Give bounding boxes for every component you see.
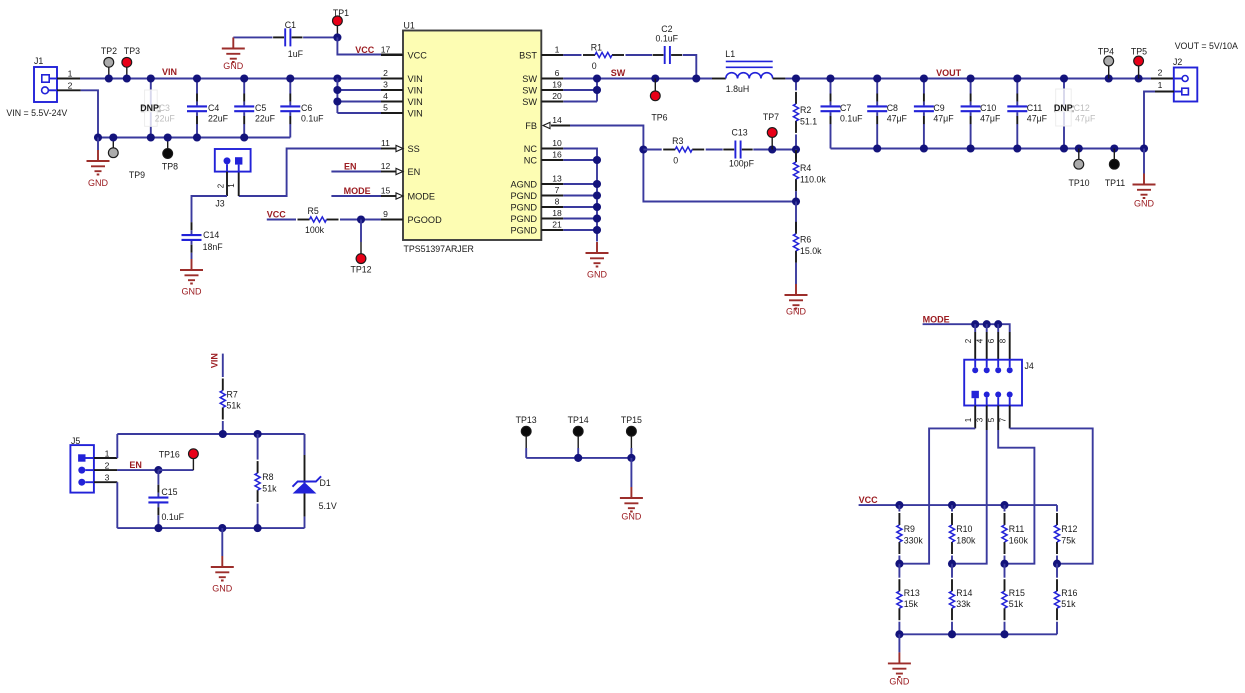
svg-text:GND: GND <box>621 512 642 522</box>
svg-text:7: 7 <box>999 417 1008 422</box>
svg-text:SW: SW <box>522 97 537 107</box>
svg-text:1: 1 <box>1158 80 1163 90</box>
wire J4 pin7 route <box>1009 406 1011 429</box>
svg-text:TP16: TP16 <box>159 449 180 459</box>
wire J5 pin3 to bottom rail <box>94 481 117 483</box>
capacitor C10 <box>970 79 972 94</box>
connector J4 <box>964 360 1022 406</box>
junction dots input bottom rail <box>94 133 102 141</box>
svg-text:3: 3 <box>383 80 388 90</box>
svg-text:C4: C4 <box>208 103 219 113</box>
wire SW pins bus <box>563 89 597 91</box>
capacitor C6 <box>289 79 291 94</box>
capacitor C2 <box>665 46 670 64</box>
svg-text:6: 6 <box>555 68 560 78</box>
svg-text:VIN: VIN <box>408 97 423 107</box>
svg-text:15: 15 <box>381 186 391 196</box>
svg-text:TP15: TP15 <box>621 415 642 425</box>
svg-text:EN: EN <box>344 161 357 171</box>
ground C14 <box>191 253 193 259</box>
test point TP2 <box>108 67 110 78</box>
junction dots output bottom rail <box>873 144 881 152</box>
ground C1 <box>232 36 234 38</box>
U1 pin 3 VIN <box>381 89 403 91</box>
svg-text:0.1uF: 0.1uF <box>656 34 679 44</box>
svg-text:100k: 100k <box>305 225 325 235</box>
svg-text:GND: GND <box>1134 199 1155 209</box>
svg-text:33k: 33k <box>956 599 971 609</box>
U1 pin 13 AGND <box>541 183 563 185</box>
svg-text:R11: R11 <box>1009 524 1025 534</box>
svg-text:180k: 180k <box>956 536 976 546</box>
U1 pin 9 PGOOD <box>381 219 403 221</box>
svg-text:1uF: 1uF <box>288 49 304 59</box>
svg-text:5: 5 <box>383 103 388 113</box>
svg-text:J1: J1 <box>34 56 43 66</box>
svg-text:9: 9 <box>383 209 388 219</box>
svg-text:51k: 51k <box>262 484 277 494</box>
svg-text:13: 13 <box>552 174 562 184</box>
U1 pin 17 VCC <box>381 54 403 56</box>
wire MODE net <box>923 324 1010 332</box>
svg-text:VIN: VIN <box>408 109 423 119</box>
wire FB net <box>570 126 796 202</box>
test point TP12 <box>360 220 362 243</box>
svg-text:8: 8 <box>555 197 560 207</box>
svg-text:0.1uF: 0.1uF <box>301 114 324 124</box>
svg-text:DNP: DNP <box>140 103 159 113</box>
node PGOOD junction <box>357 215 365 223</box>
U1 pin 16 NC <box>541 159 563 161</box>
svg-text:4: 4 <box>976 338 985 343</box>
connector J1 <box>34 67 57 102</box>
node EN junction <box>154 466 162 474</box>
svg-text:MODE: MODE <box>408 192 436 202</box>
svg-text:TP1: TP1 <box>333 8 349 18</box>
svg-text:1: 1 <box>68 69 73 79</box>
capacitor C3 (DNP) <box>150 79 152 138</box>
wire output bottom rail <box>831 148 1145 150</box>
resistor R14 <box>951 564 953 578</box>
svg-text:10: 10 <box>552 138 562 148</box>
svg-text:TP12: TP12 <box>350 264 371 274</box>
resistor R11 <box>1004 505 1006 511</box>
svg-text:15k: 15k <box>904 599 919 609</box>
ground U1 PGND <box>586 242 609 267</box>
wire D1 bottom lead <box>304 517 306 529</box>
wire VOUT rail <box>796 78 1151 80</box>
svg-text:22uF: 22uF <box>155 114 176 124</box>
svg-text:8: 8 <box>999 338 1008 343</box>
wire R3 line <box>643 149 661 151</box>
resistor R5 <box>298 219 310 221</box>
svg-text:PGND: PGND <box>510 226 537 236</box>
svg-text:VIN: VIN <box>408 86 423 96</box>
junction dots VOUT rail <box>826 74 834 82</box>
svg-text:R4: R4 <box>800 163 811 173</box>
svg-text:C5: C5 <box>255 103 266 113</box>
wire BST <box>563 54 581 56</box>
wire TP13-15 rail <box>526 457 631 459</box>
svg-text:R3: R3 <box>672 136 683 146</box>
svg-text:VIN: VIN <box>408 74 423 84</box>
svg-text:51k: 51k <box>1009 599 1024 609</box>
svg-text:TP6: TP6 <box>651 113 667 123</box>
svg-text:51k: 51k <box>227 401 242 411</box>
svg-text:47μF: 47μF <box>887 114 908 124</box>
J4 pin 2 <box>972 367 978 373</box>
svg-text:MODE: MODE <box>923 314 950 324</box>
test point TP16 <box>158 469 193 471</box>
svg-text:7: 7 <box>555 185 560 195</box>
test point TP10 <box>1078 149 1080 160</box>
svg-text:PGOOD: PGOOD <box>408 215 443 225</box>
svg-text:VCC: VCC <box>267 209 287 219</box>
svg-text:21: 21 <box>552 220 562 230</box>
wire J1 pin1 to VIN rail <box>57 78 80 80</box>
svg-text:BST: BST <box>519 51 537 61</box>
svg-text:0.1uF: 0.1uF <box>840 114 863 124</box>
svg-text:C9: C9 <box>933 103 944 113</box>
ground EN circuit <box>221 528 223 556</box>
svg-text:75k: 75k <box>1061 536 1076 546</box>
svg-text:3: 3 <box>976 417 985 422</box>
wire EN bottom rail <box>117 527 304 529</box>
svg-text:GND: GND <box>889 677 910 687</box>
svg-text:R5: R5 <box>308 206 319 216</box>
U1 pin 19 SW <box>541 89 563 91</box>
svg-text:0: 0 <box>592 61 597 71</box>
resistor R13 <box>898 564 900 578</box>
svg-text:TP3: TP3 <box>124 46 140 56</box>
test point TP7 <box>768 145 776 153</box>
wire J3 pin2 to C14 <box>226 172 228 196</box>
capacitor C4 <box>196 79 198 94</box>
svg-text:11: 11 <box>381 138 390 148</box>
svg-text:VIN = 5.5V-24V: VIN = 5.5V-24V <box>6 108 67 118</box>
J4 pin 3 <box>984 392 990 398</box>
svg-text:R6: R6 <box>800 235 811 245</box>
capacitor C13 <box>735 141 740 159</box>
test point TP8 <box>167 138 169 149</box>
U1 pin 14 FB <box>543 122 550 128</box>
svg-text:47μF: 47μF <box>1075 114 1096 124</box>
resistor R9 <box>898 505 900 511</box>
test point TP4 <box>1108 66 1110 79</box>
svg-text:100pF: 100pF <box>729 159 755 169</box>
svg-text:6: 6 <box>987 338 996 343</box>
svg-text:2: 2 <box>105 461 110 471</box>
svg-text:U1: U1 <box>404 21 415 31</box>
svg-text:GND: GND <box>212 584 233 594</box>
svg-text:12: 12 <box>381 161 391 171</box>
wire VCC rail <box>859 504 1057 506</box>
capacitor C1 <box>233 36 272 38</box>
svg-text:R14: R14 <box>956 588 972 598</box>
test point TP6 <box>651 74 659 82</box>
svg-text:1: 1 <box>105 449 110 459</box>
svg-text:47μF: 47μF <box>980 114 1001 124</box>
svg-text:EN: EN <box>129 460 142 470</box>
svg-text:5.1V: 5.1V <box>319 501 337 511</box>
svg-text:18: 18 <box>552 208 562 218</box>
wire SS net <box>239 149 381 197</box>
node FB-R3 junction <box>639 145 647 153</box>
svg-text:C10: C10 <box>980 103 996 113</box>
U1 pin 8 PGND <box>541 206 563 208</box>
svg-text:J4: J4 <box>1025 361 1034 371</box>
svg-text:330k: 330k <box>904 536 924 546</box>
wire J1 pin2 to GND rail <box>57 89 81 91</box>
wire J4 pin5 route <box>997 406 999 431</box>
svg-text:TP13: TP13 <box>516 415 537 425</box>
IC U1 TPS51397ARJER body <box>403 31 541 241</box>
svg-text:GND: GND <box>88 178 109 188</box>
svg-text:GND: GND <box>182 287 203 297</box>
wire VIN to R7 <box>222 354 224 377</box>
node R4-R6 junction <box>792 197 800 205</box>
U1 pin 20 SW <box>541 101 563 103</box>
svg-text:TP11: TP11 <box>1105 178 1125 188</box>
svg-text:4: 4 <box>383 91 388 101</box>
svg-text:L1: L1 <box>725 49 735 59</box>
capacitor C15 <box>157 470 159 485</box>
svg-text:C2: C2 <box>661 24 672 34</box>
svg-text:PGND: PGND <box>510 191 537 201</box>
J4 pin 1 <box>972 391 979 398</box>
U1 pin 15 MODE <box>381 195 396 197</box>
svg-text:2: 2 <box>1158 67 1163 77</box>
svg-text:NC: NC <box>524 156 538 166</box>
svg-text:C13: C13 <box>732 128 748 138</box>
svg-text:51.1: 51.1 <box>800 117 817 127</box>
svg-text:D1: D1 <box>320 478 331 488</box>
svg-text:C8: C8 <box>887 103 898 113</box>
svg-text:DNP: DNP <box>1054 103 1073 113</box>
svg-text:R2: R2 <box>800 105 811 115</box>
U1 pin 1 BST <box>541 54 563 56</box>
svg-text:R15: R15 <box>1009 588 1025 598</box>
inductor L1 <box>712 78 726 80</box>
svg-text:TP7: TP7 <box>763 112 779 122</box>
svg-text:TP8: TP8 <box>162 162 178 172</box>
svg-text:AGND: AGND <box>510 180 537 190</box>
svg-text:SW: SW <box>522 86 537 96</box>
svg-text:J5: J5 <box>71 436 80 446</box>
wire EN top rail <box>117 433 304 435</box>
svg-text:3: 3 <box>105 473 110 483</box>
resistor R4 <box>795 150 797 159</box>
test point TP14 <box>573 426 583 436</box>
svg-text:R9: R9 <box>904 524 915 534</box>
svg-text:VCC: VCC <box>355 45 375 55</box>
svg-text:1.8uH: 1.8uH <box>726 84 749 94</box>
capacitor C8 <box>876 79 878 94</box>
svg-text:VCC: VCC <box>408 51 428 61</box>
zener diode D1 <box>304 434 306 483</box>
wire C2 to SW <box>683 55 697 79</box>
ground mode divider <box>898 634 900 652</box>
svg-text:160k: 160k <box>1009 536 1029 546</box>
svg-text:PGND: PGND <box>510 203 537 213</box>
ground J2 <box>1143 149 1145 174</box>
svg-text:TP2: TP2 <box>101 46 117 56</box>
svg-text:2: 2 <box>964 338 973 343</box>
ground TP15 <box>630 458 632 487</box>
wire D1 top lead <box>304 434 306 455</box>
test point TP1 <box>336 26 338 38</box>
test point TP11 <box>1113 149 1115 160</box>
svg-text:VOUT = 5V/10A: VOUT = 5V/10A <box>1175 41 1238 51</box>
capacitor C11 <box>1016 79 1018 94</box>
J4 pin 7 <box>1007 392 1013 398</box>
svg-text:TP10: TP10 <box>1068 178 1089 188</box>
wire input bottom rail <box>98 137 290 139</box>
wire divider bottom rail <box>899 633 1057 635</box>
svg-text:R13: R13 <box>904 588 920 598</box>
svg-text:TP5: TP5 <box>1131 47 1147 57</box>
svg-text:0: 0 <box>673 156 678 166</box>
junction dots VIN rail <box>105 74 113 82</box>
svg-text:51k: 51k <box>1061 599 1076 609</box>
J4 pin 4 <box>984 367 990 373</box>
svg-text:1: 1 <box>555 45 560 55</box>
svg-text:SS: SS <box>408 144 420 154</box>
capacitor C7 <box>830 79 832 94</box>
connector J2 <box>1174 68 1198 102</box>
svg-text:2: 2 <box>216 183 225 188</box>
svg-text:R1: R1 <box>591 43 602 53</box>
resistor R7 <box>222 379 224 391</box>
svg-text:GND: GND <box>786 307 807 317</box>
svg-text:J3: J3 <box>215 198 224 208</box>
svg-text:110.0k: 110.0k <box>800 175 826 185</box>
svg-text:VOUT: VOUT <box>936 68 962 78</box>
resistor R15 <box>1004 564 1006 578</box>
svg-text:FB: FB <box>525 121 537 131</box>
svg-text:VCC: VCC <box>859 495 879 505</box>
wire J4 pin3 route <box>986 406 988 431</box>
U1 pin 2 VIN <box>381 78 403 80</box>
svg-text:47μF: 47μF <box>1027 114 1048 124</box>
svg-text:C11: C11 <box>1027 103 1043 113</box>
svg-text:20: 20 <box>552 91 562 101</box>
svg-text:R7: R7 <box>227 390 238 400</box>
resistor R2 <box>795 79 797 91</box>
test point TP9 <box>112 138 114 149</box>
svg-text:C14: C14 <box>203 230 219 240</box>
wire J2 pin1 to GND <box>1155 91 1174 93</box>
svg-text:2: 2 <box>383 68 388 78</box>
svg-text:19: 19 <box>552 80 562 90</box>
svg-text:R8: R8 <box>262 472 273 482</box>
wire J5 pin1 to rail <box>94 457 117 459</box>
svg-text:NC: NC <box>524 144 538 154</box>
resistor R1 <box>583 54 595 56</box>
wires MODE to J4 pins 2,4,6,8 <box>974 324 976 332</box>
connector J3 <box>215 149 251 172</box>
U1 pin 5 VIN <box>381 112 403 114</box>
svg-text:C15: C15 <box>161 487 177 497</box>
svg-text:R10: R10 <box>956 524 972 534</box>
resistor R6 <box>795 202 797 231</box>
svg-text:0.1uF: 0.1uF <box>162 512 185 522</box>
svg-text:GND: GND <box>587 270 608 280</box>
wire J5 pin2 EN net <box>94 469 117 471</box>
svg-text:22uF: 22uF <box>208 114 229 124</box>
resistor R12 <box>1056 505 1058 511</box>
U1 pin 10 NC <box>541 148 563 150</box>
svg-text:1: 1 <box>964 417 973 422</box>
svg-text:C1: C1 <box>285 20 296 30</box>
svg-text:GND: GND <box>223 61 244 71</box>
capacitor C9 <box>923 79 925 94</box>
capacitor C14 <box>191 222 193 230</box>
svg-text:C3: C3 <box>159 103 170 113</box>
wire SW rail <box>563 78 712 80</box>
wire VIN rail <box>80 78 381 80</box>
junction dots divider mid <box>895 560 903 568</box>
svg-text:16: 16 <box>552 150 562 160</box>
svg-text:R16: R16 <box>1061 588 1077 598</box>
svg-text:47μF: 47μF <box>933 114 954 124</box>
svg-text:TP9: TP9 <box>129 170 145 180</box>
svg-text:14: 14 <box>552 115 562 125</box>
U1 pin 4 VIN <box>381 101 403 103</box>
node VCC junction <box>333 33 341 41</box>
svg-text:C7: C7 <box>840 103 851 113</box>
node C2-SW junction <box>692 74 700 82</box>
svg-text:C6: C6 <box>301 103 312 113</box>
svg-text:TPS51397ARJER: TPS51397ARJER <box>404 244 474 254</box>
svg-text:VIN: VIN <box>162 67 177 77</box>
ground input <box>97 138 99 151</box>
U1 pin 12 EN <box>381 171 396 173</box>
resistor R3 <box>663 149 675 151</box>
node R2-R4 junction <box>792 145 800 153</box>
svg-text:18nF: 18nF <box>203 242 224 252</box>
U1 pin 11 SS <box>381 148 396 150</box>
svg-text:J2: J2 <box>1173 57 1182 67</box>
wire VIN pins 3-5 bus <box>337 89 381 91</box>
svg-text:15.0k: 15.0k <box>800 246 822 256</box>
svg-text:C12: C12 <box>1074 103 1090 113</box>
svg-text:EN: EN <box>408 167 421 177</box>
U1 pin 18 PGND <box>541 218 563 220</box>
J4 pin 5 <box>995 392 1001 398</box>
svg-text:1: 1 <box>227 183 236 188</box>
ground R6 <box>785 284 808 309</box>
test point TP5 <box>1138 66 1140 79</box>
resistor R8 <box>257 434 259 460</box>
wire NC-GND bus <box>563 149 597 242</box>
resistor R10 <box>951 505 953 511</box>
capacitor C12 (DNP) <box>1063 79 1065 149</box>
svg-text:5: 5 <box>987 417 996 422</box>
svg-text:VIN: VIN <box>210 353 220 368</box>
svg-text:TP14: TP14 <box>568 415 589 425</box>
wire VCC to pin 17 <box>337 37 381 54</box>
connector J5 <box>70 445 94 493</box>
svg-text:SW: SW <box>522 74 537 84</box>
svg-text:17: 17 <box>381 45 391 55</box>
wire J4 pin1 route <box>974 406 976 429</box>
svg-text:PGND: PGND <box>510 214 537 224</box>
J4 pin 8 <box>1007 367 1013 373</box>
test point TP15 <box>627 426 637 436</box>
U1 pin 21 PGND <box>541 229 563 231</box>
svg-text:R12: R12 <box>1061 524 1077 534</box>
